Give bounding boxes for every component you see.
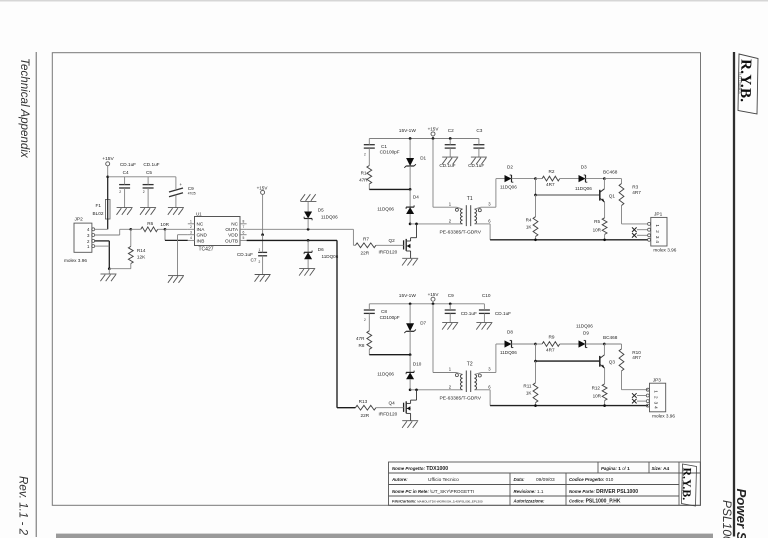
node rail D1 top <box>409 137 412 140</box>
node thick line bottom <box>409 353 412 356</box>
svg-text:R12: R12 <box>592 385 601 390</box>
capacitor C4 <box>119 162 136 207</box>
svg-text:C8: C8 <box>381 309 387 314</box>
svg-text:JP2: JP2 <box>75 217 84 223</box>
svg-text:2: 2 <box>364 318 366 322</box>
node +15V rail junction <box>106 175 109 178</box>
node JP2 ground junction <box>108 267 111 270</box>
zener diode D1 <box>404 139 426 190</box>
svg-text:D2: D2 <box>507 164 513 169</box>
svg-text:C4: C4 <box>123 170 129 175</box>
resistor R5 <box>593 202 607 241</box>
svg-text:15V-1W: 15V-1W <box>399 293 417 299</box>
ground C9 <box>442 321 458 323</box>
svg-text:3: 3 <box>190 230 192 234</box>
svg-text:10R: 10R <box>160 222 169 227</box>
svg-text:11DQ06: 11DQ06 <box>576 324 593 329</box>
top page edge line <box>0 0 768 2</box>
svg-text:2: 2 <box>190 225 192 229</box>
capacitor C3 <box>468 128 484 168</box>
ground U1 <box>168 275 184 277</box>
svg-text:Revisione: 1.1: Revisione: 1.1 <box>514 489 544 494</box>
svg-text:D6: D6 <box>318 247 324 252</box>
capacitor C9 <box>445 293 477 322</box>
wire drain line bottom <box>410 389 462 391</box>
resistor R3 <box>604 179 648 224</box>
svg-text:4R7: 4R7 <box>546 348 555 353</box>
svg-text:8: 8 <box>243 220 245 224</box>
svg-text:D1: D1 <box>420 155 426 160</box>
svg-text:CD.1uF: CD.1uF <box>461 311 477 316</box>
diode D8 <box>496 330 536 355</box>
svg-text:R8: R8 <box>359 343 365 348</box>
svg-text:4R7: 4R7 <box>632 355 641 360</box>
power rail symbol above D5 <box>300 200 316 202</box>
wire OUTB heavy <box>247 239 337 241</box>
svg-text:+15V: +15V <box>102 156 114 162</box>
no-connect X pin2 JP1 <box>637 229 648 231</box>
transistor Q1 <box>600 169 618 202</box>
svg-text:4: 4 <box>190 236 192 240</box>
wire ground bus to R14 <box>109 268 131 270</box>
node rail D1 bottom <box>409 302 412 305</box>
wire bottom rail bottom <box>490 405 648 407</box>
svg-text:molex 3.96: molex 3.96 <box>653 248 676 253</box>
svg-text:+15V: +15V <box>428 127 440 132</box>
diode D2 <box>496 164 536 189</box>
svg-text:2: 2 <box>655 230 660 233</box>
ground C4 <box>117 207 133 209</box>
svg-text:NC: NC <box>197 222 204 227</box>
resistor R7 <box>355 237 403 256</box>
svg-text:10R: 10R <box>593 227 602 232</box>
svg-text:5: 5 <box>243 236 245 240</box>
diode D9 <box>576 324 604 348</box>
svg-text:7: 7 <box>243 225 245 229</box>
node D5 on OUTA <box>307 228 310 231</box>
svg-text:10R: 10R <box>593 394 602 399</box>
svg-text:ELETTRONICA: ELETTRONICA <box>738 72 742 95</box>
svg-text:Nome PC in Rete: \UT_SKY\PROGE: Nome PC in Rete: \UT_SKY\PROGETTI <box>392 489 474 494</box>
capacitor C10 <box>479 293 511 322</box>
svg-text:NC: NC <box>231 222 238 227</box>
svg-text:C2: C2 <box>448 128 454 133</box>
svg-text:C5: C5 <box>146 170 152 175</box>
connector JP1 <box>648 212 677 253</box>
svg-text:CD100pF: CD100pF <box>380 150 400 155</box>
svg-text:47R: 47R <box>356 336 365 341</box>
title block row3 texts <box>392 489 638 495</box>
svg-text:Q2: Q2 <box>389 238 396 243</box>
node INA INB tie <box>164 228 167 231</box>
svg-text:R14: R14 <box>137 248 146 253</box>
svg-text:11DQ06: 11DQ06 <box>377 372 394 377</box>
node drain jog bottom <box>415 388 418 391</box>
wire +15V rail bottom <box>369 303 484 305</box>
svg-text:D9: D9 <box>583 331 589 336</box>
node rail +15V bottom <box>432 302 435 305</box>
svg-text:CD.1uF: CD.1uF <box>237 252 253 257</box>
svg-text:15V-1W: 15V-1W <box>399 128 417 134</box>
svg-text:JP3: JP3 <box>653 377 662 383</box>
svg-text:+15V: +15V <box>257 185 269 190</box>
resistor R11 <box>523 361 537 407</box>
resistor R9 <box>536 334 579 352</box>
svg-text:BC468: BC468 <box>603 169 618 174</box>
svg-text:File/Cartella: MAMOLI\TDX-WORK: File/Cartella: MAMOLI\TDX-WORK\SH_5,40\P… <box>392 499 483 504</box>
svg-text:C10: C10 <box>482 293 491 298</box>
resistor R14 <box>128 229 146 268</box>
svg-text:PE-63385/T-GDRV: PE-63385/T-GDRV <box>440 230 482 236</box>
svg-text:D4: D4 <box>413 195 419 200</box>
svg-text:2: 2 <box>119 190 121 194</box>
resistor R1 <box>359 150 372 190</box>
ground JP2 <box>108 269 110 274</box>
left margin vertical rule <box>35 52 37 537</box>
title block row1 texts <box>392 466 670 472</box>
transformer T2 <box>433 372 457 374</box>
svg-text:C9: C9 <box>448 293 454 298</box>
ic U1 TC427 <box>188 211 247 252</box>
svg-text:CD.1uF: CD.1uF <box>495 311 511 316</box>
svg-text:1: 1 <box>190 220 192 224</box>
node thick line top <box>409 188 412 191</box>
svg-text:INA: INA <box>197 227 206 232</box>
svg-text:PE-63385/T-GDRV: PE-63385/T-GDRV <box>440 395 482 401</box>
svg-text:Technical Appendix: Technical Appendix <box>18 58 31 159</box>
ground C10 <box>476 321 492 323</box>
svg-text:R2: R2 <box>549 169 555 174</box>
wire +15V to transformer pin1 top <box>432 139 434 208</box>
resistor R4 <box>526 195 538 241</box>
node rail C2 top <box>449 137 452 140</box>
svg-text:PSL1000: PSL1000 <box>720 500 734 538</box>
wire OUTA <box>247 228 354 230</box>
wire JP2 pin4 to fuse <box>95 228 108 230</box>
power port +15V at U1 VDD <box>257 185 269 234</box>
svg-text:T2: T2 <box>467 361 473 367</box>
svg-text:6: 6 <box>243 230 245 234</box>
svg-text:2: 2 <box>654 396 659 399</box>
node VDD <box>261 233 264 236</box>
ground Q4 <box>402 420 418 422</box>
diode D3 <box>575 164 604 191</box>
svg-text:Q1: Q1 <box>609 194 616 199</box>
svg-text:47R: 47R <box>359 178 368 183</box>
svg-text:GND: GND <box>197 233 208 238</box>
svg-text:Q4: Q4 <box>389 401 396 406</box>
svg-text:Data:: Data: <box>514 477 526 482</box>
svg-text:Autore:: Autore: <box>391 477 408 482</box>
svg-text:CD100pF: CD100pF <box>380 315 400 320</box>
wire base bottom <box>535 344 537 361</box>
svg-text:3: 3 <box>655 236 660 239</box>
title block row2 texts <box>391 477 614 483</box>
svg-text:09/09/03: 09/09/03 <box>536 477 555 483</box>
wire JP2 pin1 <box>95 245 110 247</box>
node drain line D top <box>409 223 412 226</box>
svg-text:D10: D10 <box>413 361 422 366</box>
capacitor C7 <box>237 235 267 275</box>
node R6 left <box>129 228 132 231</box>
title block row4 texts <box>392 499 621 505</box>
svg-text:4: 4 <box>655 240 660 243</box>
wire JP2 pin3 to R6 <box>95 234 120 236</box>
svg-text:U1: U1 <box>196 211 202 216</box>
wire bottom rail top <box>490 239 648 241</box>
node D6 on OUTB <box>307 239 310 242</box>
svg-text:molex 3.96: molex 3.96 <box>652 413 675 418</box>
RYB logo small title block <box>680 464 697 506</box>
transformer T1 <box>433 206 457 208</box>
resistor R6 <box>131 221 170 232</box>
ground C7 <box>255 274 271 276</box>
transistor Q3 <box>600 335 618 369</box>
node rail +15V top <box>432 137 435 140</box>
drawing frame border <box>52 53 700 506</box>
wire to INA <box>165 228 188 230</box>
node secondary top <box>534 177 537 180</box>
ground Q2 <box>402 257 418 259</box>
ground C3 <box>471 156 487 158</box>
svg-text:1: 1 <box>654 390 659 393</box>
capacitor C5 <box>143 162 160 207</box>
svg-text:R13: R13 <box>359 399 368 404</box>
svg-text:INB: INB <box>197 238 205 243</box>
power port +15V left <box>102 156 114 177</box>
svg-text:TC427: TC427 <box>199 246 214 252</box>
svg-text:Rev. 1.1 - 2: Rev. 1.1 - 2 <box>17 476 30 536</box>
svg-text:4R7: 4R7 <box>546 182 555 187</box>
wire OUTB vertical heavy <box>336 240 338 407</box>
wire +15V to transformer pin1 bottom <box>432 304 434 373</box>
svg-text:BC468: BC468 <box>603 335 618 340</box>
svg-text:VDD: VDD <box>228 233 239 238</box>
no-connect X pin3 JP3 <box>637 400 646 402</box>
svg-text:BL02: BL02 <box>93 211 104 216</box>
right heavy vertical rule <box>733 52 735 537</box>
transistor Q4 <box>379 390 417 421</box>
svg-text:12K: 12K <box>137 255 146 260</box>
RYB logo top right <box>737 54 758 114</box>
node collector bottom <box>603 343 606 346</box>
svg-text:22R: 22R <box>361 413 370 418</box>
svg-text:11DQ06: 11DQ06 <box>322 254 339 259</box>
svg-text:R11: R11 <box>523 384 532 389</box>
svg-text:CD.1uF: CD.1uF <box>120 162 136 167</box>
capacitor C9 electrolytic <box>169 177 196 208</box>
svg-text:4: 4 <box>654 406 659 409</box>
connector JP3 <box>646 377 675 418</box>
diode D10 <box>377 355 422 390</box>
wire INB tie <box>164 229 166 240</box>
wire drain line top <box>410 223 462 225</box>
svg-text:Power S: Power S <box>734 489 749 538</box>
wire U1 GND to ground <box>178 234 188 236</box>
svg-text:C3: C3 <box>476 128 482 133</box>
wire pin6 to bottom rail bottom <box>475 389 491 391</box>
diode D4 <box>377 189 419 223</box>
wire OUTA jog to R7 <box>352 229 354 245</box>
svg-text:R6: R6 <box>147 221 153 226</box>
svg-text:OUTB: OUTB <box>225 238 238 243</box>
svg-text:CD.1uF: CD.1uF <box>143 162 159 167</box>
svg-text:1: 1 <box>259 248 261 252</box>
node drain jog top <box>415 223 418 226</box>
svg-text:IRFD120: IRFD120 <box>379 412 398 417</box>
svg-text:3: 3 <box>654 402 659 405</box>
svg-text:R7: R7 <box>363 237 369 242</box>
svg-text:11DQ06: 11DQ06 <box>377 206 394 211</box>
svg-text:molex 3.96: molex 3.96 <box>64 258 87 263</box>
fuse F1 <box>93 177 111 230</box>
wire snubber bottom thick bottom <box>369 354 410 356</box>
svg-text:11DQ06: 11DQ06 <box>321 215 338 220</box>
ground C2 <box>442 156 458 158</box>
node drain line D bottom <box>409 388 412 391</box>
svg-text:Ufficio Tecnico: Ufficio Tecnico <box>428 477 459 483</box>
svg-text:T1: T1 <box>467 196 473 202</box>
ground D6 <box>299 267 315 269</box>
capacitor C1 <box>364 139 400 157</box>
svg-text:D7: D7 <box>420 321 426 326</box>
svg-text:11DQ06: 11DQ06 <box>500 185 517 190</box>
connector JP2 <box>64 217 95 263</box>
svg-text:+15V: +15V <box>428 292 440 297</box>
no-connect X pin3 JP1 <box>637 234 648 236</box>
svg-text:R1: R1 <box>361 171 367 176</box>
svg-text:R9: R9 <box>549 334 555 339</box>
resistor R12 <box>592 368 607 407</box>
svg-text:11DQ06: 11DQ06 <box>500 350 517 355</box>
svg-text:Q3: Q3 <box>609 360 616 365</box>
node collector top <box>603 177 606 180</box>
diode D5 <box>304 201 338 229</box>
svg-text:2: 2 <box>143 190 145 194</box>
svg-text:1K: 1K <box>526 225 533 230</box>
svg-text:47/25: 47/25 <box>188 192 196 196</box>
svg-text:JP1: JP1 <box>654 212 663 218</box>
svg-text:D8: D8 <box>507 330 513 335</box>
resistor R8 <box>356 315 372 355</box>
wire base top <box>535 179 537 195</box>
svg-text:IRFD120: IRFD120 <box>379 249 398 254</box>
svg-text:22R: 22R <box>361 251 370 256</box>
svg-text:2: 2 <box>259 260 261 264</box>
svg-text:11DQ06: 11DQ06 <box>575 186 592 191</box>
svg-text:D3: D3 <box>581 164 587 169</box>
svg-text:1K: 1K <box>526 391 533 396</box>
svg-text:Codice Progetto: 010: Codice Progetto: 010 <box>569 477 614 482</box>
svg-text:Autorizzazione:: Autorizzazione: <box>513 499 546 504</box>
node rail C2 bottom <box>449 302 452 305</box>
diode D6 <box>304 240 339 268</box>
wire top rail left <box>108 176 176 178</box>
svg-text:C9: C9 <box>188 186 194 191</box>
wire pin6 to bottom rail top <box>475 223 491 225</box>
no-connect X pin2 JP3 <box>637 395 646 397</box>
capacitor C8 <box>364 304 400 322</box>
title block grid <box>389 462 701 505</box>
svg-text:R4: R4 <box>526 217 532 222</box>
svg-text:F1: F1 <box>96 203 102 208</box>
node secondary bottom <box>534 343 537 346</box>
ground C9 <box>168 207 184 209</box>
wire snubber bottom thick top <box>369 188 410 190</box>
ground C5 <box>140 207 156 209</box>
resistor R10 <box>604 344 648 390</box>
svg-text:C1: C1 <box>381 144 387 149</box>
svg-text:2: 2 <box>364 153 366 157</box>
zener diode D7 <box>404 304 426 355</box>
bottom gray scan bar <box>56 534 713 538</box>
svg-text:C7: C7 <box>251 258 257 263</box>
svg-text:1: 1 <box>655 224 660 227</box>
svg-text:ELETTRONICA: ELETTRONICA <box>681 477 684 494</box>
svg-text:D5: D5 <box>318 207 324 212</box>
svg-text:R5: R5 <box>594 219 600 224</box>
resistor R2 <box>536 169 579 187</box>
svg-text:OUTA: OUTA <box>225 227 239 232</box>
capacitor C2 <box>439 128 455 168</box>
resistor R13 <box>355 399 403 418</box>
wire +15V rail top <box>369 138 479 140</box>
wire JP2 pin2 down heavy <box>95 240 110 242</box>
svg-text:4R7: 4R7 <box>632 190 641 195</box>
transistor Q2 <box>379 224 417 258</box>
